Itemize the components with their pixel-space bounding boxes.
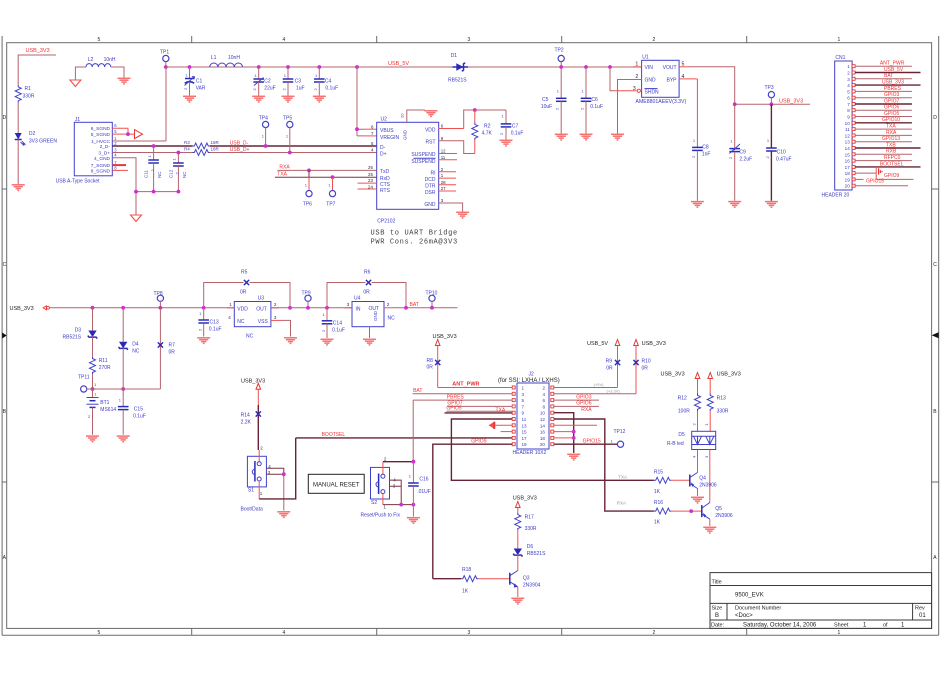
resistor R13 330R bbox=[704, 379, 729, 432]
svg-text:GPIO9: GPIO9 bbox=[884, 173, 900, 179]
svg-text:GND: GND bbox=[403, 129, 408, 140]
inductor L1 bbox=[210, 55, 243, 67]
svg-text:C14: C14 bbox=[333, 321, 342, 327]
svg-text:<Doc>: <Doc> bbox=[735, 613, 753, 619]
testpoint TP3 bbox=[765, 85, 775, 106]
svg-text:0R: 0R bbox=[427, 365, 434, 371]
svg-text:1: 1 bbox=[262, 134, 265, 139]
testpoint TP11 bbox=[78, 375, 97, 393]
svg-text:D+: D+ bbox=[380, 152, 387, 158]
svg-text:4.7K: 4.7K bbox=[482, 131, 493, 137]
svg-text:MANUAL RESET: MANUAL RESET bbox=[313, 483, 360, 489]
node R6 right junction bbox=[404, 306, 408, 310]
svg-text:C9: C9 bbox=[739, 150, 746, 156]
port USB_3V3 above R14 bbox=[241, 378, 265, 389]
svg-text:2: 2 bbox=[441, 167, 444, 172]
svg-text:HEADER 20: HEADER 20 bbox=[822, 193, 850, 199]
svg-text:1: 1 bbox=[315, 73, 318, 78]
wire J2 pin18 stub bbox=[554, 437, 574, 439]
svg-text:of: of bbox=[883, 623, 888, 629]
testpoint TP1 bbox=[160, 50, 169, 68]
svg-text:1: 1 bbox=[863, 623, 867, 629]
svg-text:VAR: VAR bbox=[196, 86, 206, 92]
svg-text:1: 1 bbox=[254, 73, 257, 78]
wire R11 to node bbox=[91, 374, 95, 391]
svg-text:RXA: RXA bbox=[617, 500, 626, 505]
wire TXA line bbox=[275, 172, 377, 178]
resistor R5 0R bypass bbox=[204, 270, 290, 308]
svg-text:2N3904: 2N3904 bbox=[523, 583, 541, 589]
svg-text:BAT: BAT bbox=[413, 388, 422, 394]
node D3 junction bbox=[91, 306, 95, 310]
svg-text:J2: J2 bbox=[529, 372, 535, 378]
svg-text:GPIO6: GPIO6 bbox=[884, 105, 900, 111]
svg-text:1: 1 bbox=[94, 382, 97, 387]
svg-text:1: 1 bbox=[328, 183, 331, 188]
svg-text:6_SGND: 6_SGND bbox=[91, 126, 111, 132]
J2 pin stub squares left bbox=[512, 386, 515, 446]
svg-text:2N3906: 2N3906 bbox=[699, 482, 717, 488]
svg-text:GPIO9: GPIO9 bbox=[471, 439, 487, 445]
regulator U4 bbox=[347, 296, 395, 327]
testpoint TP2 bbox=[555, 48, 565, 69]
svg-text:TXB: TXB bbox=[886, 142, 896, 148]
svg-text:12: 12 bbox=[441, 149, 446, 154]
transistor Q3 2N3904 bbox=[510, 571, 541, 598]
svg-text:2: 2 bbox=[847, 71, 850, 76]
svg-text:1K: 1K bbox=[654, 520, 661, 526]
capacitor C15 0.1uF bbox=[118, 389, 146, 435]
svg-text:1: 1 bbox=[94, 392, 97, 397]
wire USB_5V rail bbox=[166, 66, 642, 68]
svg-text:R2: R2 bbox=[484, 124, 491, 130]
wire BAT to J2 pin3 bbox=[413, 388, 513, 394]
resistor R12 100R bbox=[678, 379, 701, 432]
resistor R8 0R bbox=[427, 346, 441, 388]
svg-text:RXA: RXA bbox=[886, 130, 897, 136]
resistor R17 330R bbox=[515, 508, 537, 549]
svg-text:TP3: TP3 bbox=[765, 85, 774, 91]
wire U3 VSS to ground bbox=[271, 320, 291, 336]
svg-text:C13: C13 bbox=[210, 320, 219, 326]
svg-text:3: 3 bbox=[704, 455, 709, 458]
node C2 junction bbox=[257, 65, 261, 69]
svg-text:13: 13 bbox=[522, 423, 528, 428]
svg-text:9: 9 bbox=[847, 115, 850, 120]
svg-text:0R: 0R bbox=[363, 290, 370, 296]
wire U1 GND pin2 to ground bbox=[618, 80, 642, 134]
svg-text:GPIO15: GPIO15 bbox=[866, 179, 884, 185]
svg-text:Q3: Q3 bbox=[523, 576, 530, 582]
svg-text:20: 20 bbox=[540, 442, 546, 447]
svg-text:RB521S: RB521S bbox=[448, 78, 467, 84]
svg-text:TP11: TP11 bbox=[78, 375, 90, 381]
svg-text:20: 20 bbox=[400, 113, 405, 118]
node U2 supply junction bbox=[355, 65, 359, 69]
wire USB_3V3 stub bbox=[18, 55, 56, 85]
svg-text:2: 2 bbox=[542, 386, 545, 391]
svg-text:12: 12 bbox=[540, 417, 546, 422]
LED D5 R-B led bbox=[667, 431, 716, 458]
svg-text:C: C bbox=[3, 262, 7, 268]
wire mid 3V3 rail bbox=[50, 307, 235, 309]
svg-text:A: A bbox=[3, 555, 7, 561]
svg-text:2: 2 bbox=[260, 446, 263, 451]
regulator U3 bbox=[228, 296, 277, 340]
svg-text:NC: NC bbox=[182, 171, 187, 178]
svg-text:R18: R18 bbox=[462, 567, 471, 573]
svg-text:CP2102: CP2102 bbox=[377, 219, 395, 225]
svg-text:6: 6 bbox=[114, 123, 117, 128]
title block bbox=[710, 573, 932, 629]
svg-text:18R: 18R bbox=[211, 140, 220, 145]
svg-text:RI: RI bbox=[431, 171, 436, 177]
capacitor C1 VAR bbox=[183, 67, 206, 96]
wire U3 OUT rail to U4 bbox=[271, 307, 352, 309]
svg-text:1: 1 bbox=[502, 114, 505, 119]
resistor R10 0R bbox=[633, 346, 650, 394]
svg-text:B: B bbox=[933, 409, 937, 415]
svg-text:USB_3V3: USB_3V3 bbox=[642, 341, 666, 347]
ground under C5 bbox=[555, 134, 568, 140]
svg-text:CN1: CN1 bbox=[835, 55, 845, 61]
svg-text:BOOTSEL: BOOTSEL bbox=[322, 432, 346, 438]
transistor Q4 2N3906 bbox=[690, 473, 717, 497]
wire R2 to RST bbox=[439, 141, 475, 154]
CN1 net wires and labels bbox=[855, 61, 920, 186]
svg-text:2: 2 bbox=[183, 87, 188, 90]
op-amp U2 CP2102 body bbox=[368, 116, 446, 224]
svg-text:TP4: TP4 bbox=[259, 116, 268, 122]
svg-text:0.1uF: 0.1uF bbox=[511, 131, 524, 137]
diode D1 RB521S bbox=[448, 53, 468, 84]
wire D5 to Q5 collector bbox=[709, 450, 711, 503]
node C6 junction bbox=[584, 65, 588, 69]
svg-text:RXA: RXA bbox=[279, 164, 290, 170]
svg-text:RxD: RxD bbox=[380, 176, 390, 182]
svg-text:PWR Cons. 26mA@3V3: PWR Cons. 26mA@3V3 bbox=[371, 239, 458, 247]
ground under U1 GND bbox=[611, 134, 624, 140]
svg-text:Document Number: Document Number bbox=[735, 606, 781, 612]
capacitor C16 .01UF bbox=[408, 462, 431, 517]
wire D2 to ground bbox=[17, 140, 19, 185]
svg-text:4: 4 bbox=[114, 153, 117, 158]
node R2 top junction bbox=[473, 108, 477, 112]
svg-text:NC: NC bbox=[388, 316, 396, 322]
svg-text:1: 1 bbox=[901, 623, 905, 629]
svg-text:330R: 330R bbox=[525, 526, 537, 532]
svg-text:1: 1 bbox=[199, 311, 202, 316]
svg-text:1: 1 bbox=[847, 64, 850, 69]
testpoint TP6 bbox=[303, 169, 312, 208]
svg-text:4: 4 bbox=[228, 315, 231, 320]
svg-text:14: 14 bbox=[540, 423, 546, 428]
svg-text:S1: S1 bbox=[248, 488, 254, 494]
svg-text:4: 4 bbox=[691, 455, 696, 458]
svg-text:GPIO7: GPIO7 bbox=[884, 98, 900, 104]
svg-text:GPIO15: GPIO15 bbox=[583, 439, 601, 445]
port USB_3V3 above R13 bbox=[708, 371, 741, 378]
svg-text:10: 10 bbox=[845, 121, 851, 126]
wire USB_3V3 rail right bbox=[733, 102, 810, 106]
svg-text:C7: C7 bbox=[512, 124, 519, 130]
svg-text:D4: D4 bbox=[132, 342, 139, 348]
svg-text:U2: U2 bbox=[381, 116, 388, 122]
svg-text:11: 11 bbox=[845, 127, 850, 132]
svg-text:14: 14 bbox=[845, 146, 851, 151]
svg-text:4: 4 bbox=[371, 148, 374, 153]
capacitor C11 NC bbox=[144, 144, 163, 193]
testpoint TP7 bbox=[326, 175, 335, 207]
svg-text:.01UF: .01UF bbox=[417, 489, 431, 495]
wire U2 GND pin3 to ground bbox=[439, 203, 463, 212]
svg-text:2.2K: 2.2K bbox=[241, 420, 252, 426]
wire U1 VIN red stub bbox=[633, 66, 642, 68]
capacitor C5 10uF bbox=[541, 67, 567, 134]
svg-text:5_SGND: 5_SGND bbox=[91, 132, 111, 138]
svg-text:NC: NC bbox=[132, 349, 140, 355]
port USB_3V3 above R12 bbox=[661, 371, 700, 378]
wire U2 top GND pin to ground bbox=[400, 110, 426, 122]
resistor R16 1K bbox=[654, 500, 702, 525]
ground under U2 pin3 bbox=[456, 212, 469, 218]
svg-text:BYP: BYP bbox=[666, 78, 677, 84]
ground above U2 bbox=[425, 111, 438, 117]
svg-text:C6: C6 bbox=[591, 97, 598, 103]
svg-text:USB_D-: USB_D- bbox=[230, 140, 249, 146]
svg-text:1_HVCC: 1_HVCC bbox=[91, 139, 110, 145]
wire J1 pin4 GND bbox=[112, 158, 136, 215]
svg-text:2N3906: 2N3906 bbox=[715, 513, 733, 519]
svg-text:2.2uF: 2.2uF bbox=[739, 157, 752, 163]
port USB_5V above R9 bbox=[587, 340, 620, 348]
svg-text:D2: D2 bbox=[29, 131, 36, 137]
svg-text:0.47uF: 0.47uF bbox=[776, 157, 792, 163]
svg-text:GND: GND bbox=[373, 310, 378, 321]
wire C11/C12 bottom rail bbox=[134, 190, 178, 194]
resistor R14 2.2K bbox=[241, 389, 264, 450]
svg-text:2: 2 bbox=[198, 328, 203, 331]
svg-text:1: 1 bbox=[284, 73, 287, 78]
svg-text:2: 2 bbox=[580, 107, 585, 110]
svg-text:2: 2 bbox=[274, 302, 277, 307]
svg-text:GPIO5: GPIO5 bbox=[446, 406, 462, 412]
svg-text:GPIO3: GPIO3 bbox=[576, 394, 592, 400]
svg-text:0.1uF: 0.1uF bbox=[590, 104, 603, 110]
svg-text:8: 8 bbox=[371, 124, 374, 129]
net label BAT bbox=[410, 302, 419, 308]
svg-text:27: 27 bbox=[441, 186, 446, 191]
svg-text:GPIO10: GPIO10 bbox=[882, 117, 900, 123]
ground under C1 bbox=[183, 96, 196, 102]
wire J2 pin14 stub bbox=[554, 424, 597, 426]
svg-text:TP12: TP12 bbox=[614, 429, 626, 435]
wire S2 pin2 to PBRES node bbox=[383, 461, 414, 463]
svg-text:1: 1 bbox=[611, 439, 614, 444]
ground under Q5 bbox=[703, 527, 716, 533]
capacitor C8 1nF bbox=[691, 138, 711, 201]
wire GPIO3 from J2 pin6 bbox=[554, 394, 599, 400]
inductor L2 bbox=[86, 57, 116, 67]
svg-text:2: 2 bbox=[384, 456, 387, 461]
svg-text:2: 2 bbox=[114, 141, 117, 146]
svg-text:GND: GND bbox=[645, 78, 657, 84]
testpoint TP4 bbox=[259, 116, 269, 148]
svg-text:1: 1 bbox=[383, 505, 386, 510]
svg-text:1uF: 1uF bbox=[296, 86, 305, 92]
svg-text:S2: S2 bbox=[371, 500, 377, 506]
svg-text:Q5: Q5 bbox=[715, 506, 722, 512]
wire J2 pin12 to R16 bbox=[554, 419, 654, 511]
svg-text:2: 2 bbox=[653, 630, 656, 636]
no-connect marker at CN1 pin18 bbox=[879, 168, 883, 174]
svg-text:1: 1 bbox=[323, 312, 326, 317]
wire VOUT to USB_3V3 rail bbox=[679, 67, 735, 105]
svg-text:1: 1 bbox=[229, 302, 232, 307]
svg-text:11: 11 bbox=[522, 417, 527, 422]
svg-text:9500_EVK: 9500_EVK bbox=[735, 593, 764, 599]
svg-text:1nF: 1nF bbox=[702, 152, 711, 158]
capacitor C6 0.1uF bbox=[580, 67, 603, 134]
svg-text:TP6: TP6 bbox=[303, 202, 312, 208]
ground under S1 bbox=[277, 512, 290, 518]
svg-text:26: 26 bbox=[368, 165, 373, 170]
svg-text:10nH: 10nH bbox=[104, 57, 116, 63]
svg-text:BAT: BAT bbox=[410, 302, 419, 308]
svg-text:16: 16 bbox=[845, 159, 851, 164]
svg-text:8_SGND: 8_SGND bbox=[91, 168, 111, 174]
wire HVCC riser bbox=[165, 67, 167, 141]
svg-text:1: 1 bbox=[838, 630, 841, 636]
svg-text:ANT_PWR: ANT_PWR bbox=[452, 382, 479, 388]
svg-text:C10: C10 bbox=[777, 150, 786, 156]
wire GPIO9 to J2 pin19 bbox=[433, 439, 512, 579]
svg-text:R11: R11 bbox=[99, 358, 108, 364]
svg-text:4: 4 bbox=[542, 392, 545, 397]
svg-text:12: 12 bbox=[845, 133, 851, 138]
svg-text:15: 15 bbox=[522, 430, 528, 435]
ground under C9 bbox=[728, 202, 741, 208]
svg-text:Saturday, October 14, 2006: Saturday, October 14, 2006 bbox=[743, 623, 817, 629]
svg-text:R15: R15 bbox=[654, 469, 663, 475]
svg-text:3: 3 bbox=[633, 86, 636, 92]
net label USB_5V bbox=[388, 61, 409, 67]
svg-text:RST: RST bbox=[426, 140, 436, 146]
ground under C10 bbox=[765, 202, 778, 208]
port USB_3V3 above R17 bbox=[513, 496, 537, 508]
svg-text:U1: U1 bbox=[642, 55, 649, 61]
wire USB_D+ to U2 bbox=[210, 147, 377, 153]
svg-text:10nH: 10nH bbox=[228, 55, 240, 61]
wire S1 pin1 BOOTSEL loop bbox=[259, 438, 296, 499]
switch S1 bbox=[241, 450, 272, 513]
ground under C16 bbox=[407, 518, 420, 524]
wire J2 pin16 stub bbox=[554, 431, 574, 433]
svg-text:18R: 18R bbox=[211, 147, 220, 152]
svg-text:R4: R4 bbox=[184, 147, 190, 152]
annotation MANUAL RESET box bbox=[308, 474, 364, 493]
svg-text:TP7: TP7 bbox=[326, 202, 335, 208]
svg-text:1: 1 bbox=[730, 139, 733, 144]
svg-text:VIN: VIN bbox=[645, 65, 654, 71]
svg-text:3V3 GREEN: 3V3 GREEN bbox=[29, 139, 57, 145]
svg-text:9: 9 bbox=[522, 411, 525, 416]
ground under C4 bbox=[313, 96, 326, 102]
svg-text:RXB: RXB bbox=[886, 149, 897, 155]
svg-text:TXA: TXA bbox=[886, 124, 896, 130]
svg-text:SUSPEND: SUSPEND bbox=[411, 152, 436, 158]
testpoint TP10 bbox=[426, 291, 438, 310]
testpoint TP9 bbox=[302, 291, 312, 310]
battery BT1 MS614 bbox=[87, 389, 117, 435]
net label USB_3V3 at TP3 bbox=[779, 98, 803, 104]
wire S2 pin1 rail bbox=[383, 494, 415, 507]
wire L2 right to ground bbox=[111, 67, 124, 78]
svg-text:2: 2 bbox=[499, 132, 504, 135]
svg-text:RTS: RTS bbox=[380, 188, 391, 194]
wire U3 red pin stubs bbox=[227, 307, 279, 309]
resistor R11 270R bbox=[90, 357, 112, 375]
svg-text:USB_3V3: USB_3V3 bbox=[717, 371, 741, 377]
wire RI DCD DTR DSR stubs bbox=[439, 172, 456, 191]
svg-text:D5: D5 bbox=[678, 432, 685, 438]
svg-text:C4: C4 bbox=[325, 79, 332, 85]
svg-text:TP2: TP2 bbox=[555, 48, 564, 54]
svg-text:MS614: MS614 bbox=[100, 407, 116, 413]
wire GPIO15 to TP12 bbox=[554, 439, 618, 445]
svg-text:2: 2 bbox=[88, 414, 91, 419]
svg-text:1: 1 bbox=[305, 183, 308, 188]
svg-text:22uF: 22uF bbox=[264, 86, 275, 92]
svg-text:R8: R8 bbox=[427, 358, 434, 364]
chassis ground under J1 bbox=[131, 215, 142, 222]
svg-text:20: 20 bbox=[845, 184, 851, 189]
svg-text:C15: C15 bbox=[134, 407, 143, 413]
svg-text:BOOTSEL: BOOTSEL bbox=[880, 161, 904, 167]
svg-text:1K: 1K bbox=[654, 489, 661, 495]
node C14 junction bbox=[325, 306, 329, 310]
capacitor C3 1uF bbox=[282, 67, 305, 96]
svg-text:6: 6 bbox=[847, 96, 850, 101]
svg-text:1: 1 bbox=[185, 73, 188, 78]
svg-text:5: 5 bbox=[847, 89, 850, 94]
svg-text:NC: NC bbox=[237, 319, 245, 325]
svg-text:TXA: TXA bbox=[618, 475, 627, 480]
svg-text:RB521S: RB521S bbox=[63, 335, 82, 341]
capacitor C2 22uF bbox=[252, 67, 276, 96]
svg-text:NC: NC bbox=[157, 171, 162, 178]
wire RXA line bbox=[277, 164, 376, 170]
svg-text:C8: C8 bbox=[702, 145, 709, 151]
svg-text:USB_3V3: USB_3V3 bbox=[513, 496, 537, 502]
connector J1 USB A-Type Socket bbox=[56, 117, 118, 185]
svg-text:4_GND: 4_GND bbox=[94, 156, 111, 162]
svg-text:Sheet: Sheet bbox=[834, 623, 849, 629]
svg-text:2: 2 bbox=[387, 302, 390, 307]
svg-text:D1: D1 bbox=[451, 53, 458, 59]
svg-text:2: 2 bbox=[728, 156, 733, 159]
diode D4 NC bbox=[119, 308, 140, 391]
svg-text:AME8801AEEV(3.3V): AME8801AEEV(3.3V) bbox=[636, 99, 687, 105]
svg-text:PBRES: PBRES bbox=[447, 394, 465, 400]
wire PBRES vertical bbox=[412, 400, 416, 464]
svg-text:VDD: VDD bbox=[237, 306, 248, 312]
ground under U3 VSS bbox=[284, 338, 297, 344]
ground under C6 bbox=[580, 134, 593, 140]
svg-text:1: 1 bbox=[286, 134, 289, 139]
svg-text:11: 11 bbox=[441, 155, 446, 160]
grey label TXA on R15 line bbox=[618, 475, 627, 480]
